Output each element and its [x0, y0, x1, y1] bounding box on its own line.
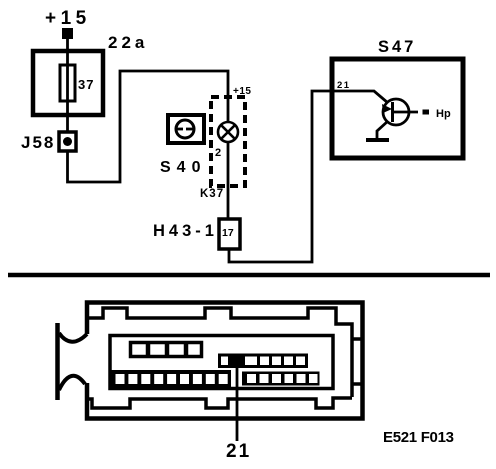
- connector left funnel bracket bar: [55, 323, 60, 400]
- ground: [366, 138, 389, 142]
- horn symbol bar: [391, 102, 394, 122]
- svg-text:+15: +15: [45, 8, 91, 29]
- top-left pin strip: [131, 342, 202, 357]
- horn symbol arrow: [382, 104, 392, 113]
- wire J58 to lamp (down, right, up, right, down): [68, 71, 229, 182]
- highlighted pin 21 (filled): [228, 354, 245, 369]
- connector funnel top curve: [59, 333, 87, 342]
- svg-text:37: 37: [78, 77, 94, 92]
- terminal square for +15 feed: [62, 28, 73, 39]
- svg-text:Hp: Hp: [436, 108, 451, 120]
- bottom-right pin strip: [242, 372, 320, 386]
- wire H43-1 to S47 (down, right, up): [229, 91, 332, 262]
- svg-text:S47: S47: [378, 38, 416, 56]
- connector J58 contact dot: [63, 137, 72, 146]
- right wall stub lower: [352, 382, 361, 386]
- connector inner frame: [110, 336, 333, 389]
- svg-text:+15: +15: [233, 86, 251, 97]
- fuse holder box 22a: [33, 51, 103, 115]
- wire from +15 terminal through fuse to J58: [66, 38, 69, 133]
- horn symbol circle: [383, 99, 409, 125]
- svg-text:S40: S40: [160, 159, 206, 176]
- connector funnel bottom curve: [59, 376, 85, 390]
- svg-text:21: 21: [226, 441, 251, 462]
- right wall stub upper: [352, 337, 361, 341]
- horn output line: [393, 111, 418, 114]
- connector inner wall top contour with tabs: [88, 308, 352, 397]
- svg-text:E521 F013: E521 F013: [383, 429, 454, 446]
- horn unit box S47: [332, 59, 463, 158]
- divider line: [8, 273, 490, 278]
- wire to ground inside S47: [377, 121, 388, 139]
- pointer line from pin 21: [236, 366, 239, 441]
- connector inner wall bottom contour with tabs: [88, 398, 352, 408]
- connector housing outer wall: [87, 303, 363, 419]
- S40 switch icon box: [168, 115, 204, 143]
- S40 icon dashes: [177, 128, 183, 131]
- svg-text:17: 17: [222, 227, 234, 239]
- top-right pin strip: [220, 355, 307, 367]
- svg-text:21: 21: [337, 80, 351, 91]
- connector J58 box: [59, 132, 76, 151]
- wire inside S47 to horn symbol: [334, 91, 388, 103]
- pin box 17 of H43-1: [219, 219, 240, 249]
- bottom-left pin strip: [111, 370, 231, 389]
- dashed enclosure around lamp: [211, 97, 245, 186]
- lamp bulb symbol: [218, 122, 238, 142]
- svg-text:22a: 22a: [108, 33, 148, 52]
- S40 icon circle: [176, 120, 194, 138]
- fuse 37: [60, 65, 75, 101]
- wire lamp to H43-1 box: [227, 142, 230, 220]
- horn output tick: [423, 110, 430, 115]
- svg-text:H43-1: H43-1: [153, 222, 218, 240]
- svg-text:K37: K37: [200, 188, 224, 200]
- svg-text:J58: J58: [21, 133, 55, 152]
- svg-text:2: 2: [215, 147, 221, 159]
